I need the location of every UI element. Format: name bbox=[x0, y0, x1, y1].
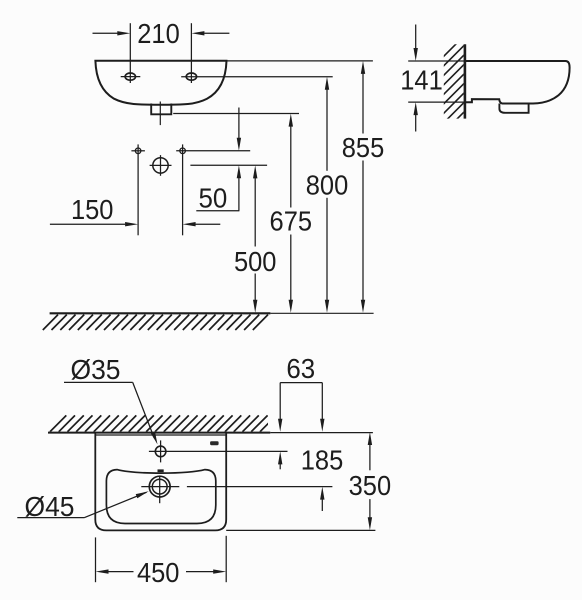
extension line at trap bottom level bbox=[173, 113, 299, 115]
side view: rim extension line bbox=[408, 60, 466, 62]
dimension 800 line bbox=[325, 77, 329, 313]
svg-text:855: 855 bbox=[342, 132, 385, 163]
top view: overflow mark bbox=[158, 469, 164, 472]
label O35 leader bbox=[64, 382, 158, 444]
extension line above tap hole left bbox=[129, 23, 131, 83]
dimension 50 upper arrow bbox=[237, 108, 241, 151]
side view: underside extension line bbox=[408, 101, 466, 103]
dimension 50 lower arrow and shelf bbox=[196, 165, 241, 211]
dimension 450 extension line left bbox=[95, 537, 97, 582]
front view: drain hole bbox=[150, 155, 172, 176]
label O45 leader bbox=[17, 491, 149, 517]
mounting hole left bbox=[131, 148, 145, 154]
svg-text:Ø35: Ø35 bbox=[71, 354, 121, 385]
front view: tap hole left bbox=[121, 73, 141, 80]
svg-text:675: 675 bbox=[270, 205, 313, 236]
extension line at mounting hole level bbox=[176, 150, 250, 152]
front view: trap centerline dash bbox=[159, 102, 161, 126]
extension line at drain level bbox=[190, 164, 267, 166]
top view: drain outer circle bbox=[149, 476, 170, 497]
extension line at tap hole level bbox=[181, 76, 333, 78]
floor line bbox=[50, 312, 374, 314]
dimension 63 lower arrow bbox=[278, 451, 282, 469]
svg-text:141: 141 bbox=[400, 65, 443, 96]
extension line at tap hole level (top view) bbox=[149, 450, 288, 452]
svg-text:450: 450 bbox=[137, 557, 180, 588]
dimension 141 upper arrow bbox=[414, 25, 418, 62]
dimension 500 line bbox=[253, 165, 257, 312]
dimension 63 upper arrow bbox=[278, 383, 282, 432]
dimension 185 lower arrow bbox=[320, 487, 324, 511]
side view: trap cover bbox=[499, 104, 528, 113]
extension line at drain level (top view) bbox=[187, 486, 333, 488]
top view: wall line bbox=[48, 432, 373, 434]
top view: GROHE logo bbox=[210, 441, 219, 445]
side view: wall hatching bbox=[437, 30, 470, 158]
dimension 141 lower arrow bbox=[414, 102, 418, 131]
dimension 855 line bbox=[361, 61, 365, 313]
top view: drain inner circle bbox=[152, 479, 167, 494]
extension line at rim level bbox=[227, 60, 373, 62]
svg-text:63: 63 bbox=[286, 353, 315, 384]
dimension 185 upper arrow bbox=[320, 383, 324, 432]
svg-text:150: 150 bbox=[71, 194, 114, 225]
floor hatching bbox=[43, 315, 268, 330]
dimension 350 line bbox=[368, 432, 372, 530]
top view: basin outer edge bbox=[95, 433, 226, 531]
dimension 675 line bbox=[289, 114, 293, 313]
dimension 450 line bbox=[96, 569, 227, 573]
front view: trap spigot bbox=[150, 104, 172, 115]
dimension 450 extension line right bbox=[225, 536, 227, 582]
svg-text:350: 350 bbox=[349, 470, 392, 501]
front view: basin outline bbox=[95, 61, 226, 105]
svg-text:500: 500 bbox=[234, 246, 277, 277]
svg-text:50: 50 bbox=[199, 183, 228, 214]
svg-text:185: 185 bbox=[301, 444, 344, 475]
dimension 210 line and arrows bbox=[93, 31, 230, 35]
dimension 150 line and arrows bbox=[50, 222, 220, 226]
side view: basin outline bbox=[466, 61, 570, 104]
svg-text:800: 800 bbox=[306, 170, 349, 201]
svg-text:210: 210 bbox=[137, 18, 180, 49]
side view: wall line bbox=[464, 44, 467, 118]
extension line above tap hole right bbox=[190, 23, 192, 83]
mounting hole right stem bbox=[182, 144, 184, 235]
mounting hole right bbox=[180, 148, 186, 154]
dimension 63 shelf bbox=[280, 382, 322, 384]
top view: wall hatching bbox=[50, 415, 276, 431]
top view: tap hole bbox=[155, 440, 166, 462]
top view: inner bowl bbox=[106, 470, 215, 524]
extension line basin front edge bbox=[226, 529, 375, 531]
mounting hole left stem bbox=[137, 144, 139, 235]
top view: drain centerlines bbox=[141, 476, 179, 504]
front view: tap hole right bbox=[186, 73, 196, 80]
